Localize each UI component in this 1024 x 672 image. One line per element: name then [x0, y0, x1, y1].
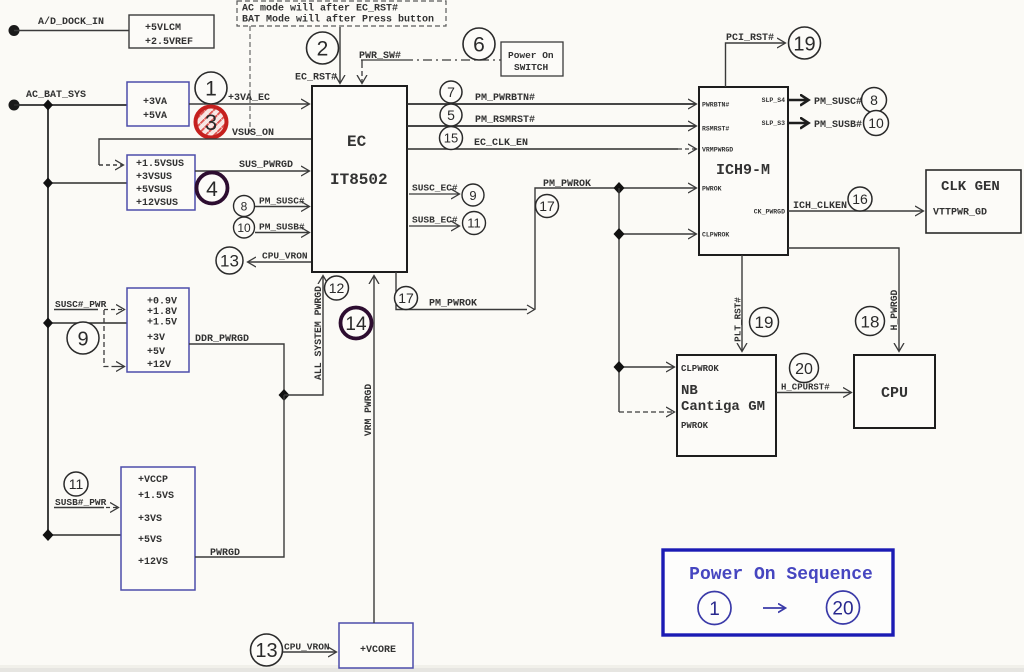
svg-text:18: 18 — [861, 313, 880, 332]
legend arrow — [763, 607, 785, 609]
regulator block +VSUS rails — [127, 155, 195, 210]
svg-text:CLK GEN: CLK GEN — [941, 179, 1000, 195]
svg-text:20: 20 — [795, 361, 813, 378]
svg-text:ICH9-M: ICH9-M — [716, 162, 770, 179]
CPU block — [854, 355, 935, 428]
badge 12 — [325, 276, 349, 300]
svg-text:+5V: +5V — [147, 347, 165, 358]
wire DDR_PWRGD — [189, 344, 284, 395]
svg-text:BAT Mode will after Press butt: BAT Mode will after Press button — [242, 14, 434, 26]
wire ALL SYSTEM PWRGD into EC — [284, 276, 323, 395]
svg-text:10: 10 — [237, 221, 251, 235]
svg-text:NB: NB — [681, 383, 698, 399]
svg-text:Power On Sequence: Power On Sequence — [689, 565, 873, 585]
svg-text:Cantiga GM: Cantiga GM — [681, 399, 765, 415]
wire ICH_CLKEN — [788, 210, 923, 212]
wire rail to VCCP box — [48, 534, 121, 536]
badge 9 (EC side) — [462, 184, 484, 206]
wire rail to +0.9V box — [48, 322, 127, 324]
svg-text:14: 14 — [345, 314, 367, 335]
svg-text:PM_SUSC#: PM_SUSC# — [814, 97, 862, 108]
svg-text:+1.5VSUS: +1.5VSUS — [136, 159, 184, 170]
junction CLPWROK — [614, 228, 625, 240]
node A/D_DOCK_IN dot — [9, 25, 20, 36]
legend badge 20 — [827, 591, 860, 624]
svg-text:+1.8V: +1.8V — [147, 307, 177, 318]
svg-text:11: 11 — [467, 216, 481, 231]
wire SUSC#_PWR into +0.9V box — [54, 309, 98, 311]
svg-text:17: 17 — [398, 290, 414, 306]
svg-text:EC_RST#: EC_RST# — [295, 73, 337, 84]
svg-text:19: 19 — [755, 313, 774, 332]
wire PCI_RST# — [726, 43, 786, 87]
svg-text:VRMPWRGD: VRMPWRGD — [702, 147, 733, 154]
svg-text:EC_CLK_EN: EC_CLK_EN — [474, 138, 528, 149]
badge 2 — [307, 32, 339, 64]
svg-text:PM_SUSC#: PM_SUSC# — [259, 196, 305, 207]
svg-text:CLPWROK: CLPWROK — [702, 232, 729, 239]
svg-text:10: 10 — [868, 115, 884, 131]
EC block IT8502 — [312, 86, 407, 272]
svg-text:H_CPURST#: H_CPURST# — [781, 383, 830, 393]
svg-text:+0.9V: +0.9V — [147, 297, 177, 308]
svg-text:+3VA: +3VA — [143, 97, 167, 108]
svg-text:+5VS: +5VS — [138, 535, 162, 546]
svg-text:+12V: +12V — [147, 360, 171, 371]
wire CPU_VRON out of EC — [248, 261, 311, 263]
wire PLT_RST# to NB — [741, 255, 743, 351]
svg-text:CLPWROK: CLPWROK — [681, 364, 719, 374]
junction rail at +0.9V — [43, 318, 53, 329]
svg-text:+1.5VS: +1.5VS — [138, 491, 174, 502]
svg-text:PWROK: PWROK — [702, 186, 722, 193]
svg-text:2: 2 — [317, 38, 329, 61]
svg-text:PWROK: PWROK — [681, 421, 709, 431]
svg-text:PM_SUSB#: PM_SUSB# — [814, 120, 862, 131]
wire PWR_SW# (dash-dot) — [361, 59, 404, 61]
badge 11 (EC side) — [463, 212, 486, 235]
wire AC_BAT_SYS horizontal — [14, 104, 127, 106]
svg-text:PM_RSMRST#: PM_RSMRST# — [475, 115, 535, 126]
badge 17 (ICH side) — [536, 195, 559, 218]
badge 10 (ICH side) — [864, 111, 889, 136]
svg-text:PWRGD: PWRGD — [210, 548, 240, 559]
svg-text:+3VA_EC: +3VA_EC — [228, 93, 270, 104]
junction rail top — [43, 100, 53, 111]
svg-text:+2.5VREF: +2.5VREF — [145, 37, 193, 48]
svg-text:13: 13 — [255, 640, 277, 662]
svg-text:8: 8 — [241, 200, 248, 214]
svg-text:+5VA: +5VA — [143, 111, 167, 122]
badge 13 (VCORE side) — [251, 634, 283, 666]
svg-text:PM_PWROK: PM_PWROK — [429, 299, 477, 310]
svg-text:+3VS: +3VS — [138, 514, 162, 525]
wire SUSB_EC# — [409, 225, 459, 227]
junction NB CLPWROK — [614, 361, 625, 373]
junction ALL SYSTEM PWRGD — [279, 389, 290, 401]
wire CLPWROK rail down — [618, 188, 620, 412]
svg-text:H_PWRGD: H_PWRGD — [889, 289, 900, 330]
badge 8 — [234, 196, 255, 217]
svg-text:VRM PWRGD: VRM PWRGD — [363, 384, 374, 437]
ICH9-M block — [699, 87, 788, 255]
svg-text:VSUS_ON: VSUS_ON — [232, 128, 274, 139]
badge 1 — [195, 72, 227, 104]
svg-text:+12VS: +12VS — [138, 557, 168, 568]
svg-text:A/D_DOCK_IN: A/D_DOCK_IN — [38, 16, 104, 28]
svg-text:PWR_SW#: PWR_SW# — [359, 51, 401, 62]
svg-text:+5VSUS: +5VSUS — [136, 185, 172, 196]
wire VRM_PWRGD — [373, 276, 375, 623]
svg-text:7: 7 — [447, 84, 455, 100]
badge 16 — [848, 187, 872, 211]
badge 19 (NB side) — [750, 308, 779, 337]
svg-text:AC_BAT_SYS: AC_BAT_SYS — [26, 90, 86, 101]
junction PM_PWROK / CLPWROK rail — [614, 182, 625, 194]
badge 14 (purple) — [341, 308, 372, 339]
svg-text:1: 1 — [709, 599, 720, 620]
wire SUS_PWRGD — [195, 170, 309, 172]
svg-text:12: 12 — [329, 280, 345, 296]
svg-text:ALL SYSTEM PWRGD: ALL SYSTEM PWRGD — [313, 286, 324, 380]
junction rail at VSUS — [43, 178, 53, 189]
bottom footer band — [0, 665, 1024, 668]
svg-text:20: 20 — [832, 599, 853, 620]
wire H_PWRGD to CPU — [788, 248, 899, 351]
note leader dashed wire — [249, 26, 251, 133]
svg-text:AC mode will after EC_RST#: AC mode will after EC_RST# — [242, 3, 398, 15]
svg-text:PLT_RST#: PLT_RST# — [733, 297, 744, 342]
svg-text:+1.5V: +1.5V — [147, 318, 177, 329]
badge 10 — [234, 217, 255, 238]
svg-text:16: 16 — [852, 191, 868, 207]
badge 18 — [856, 307, 885, 336]
wire A/D_DOCK_IN — [14, 30, 129, 32]
svg-text:Power On: Power On — [508, 50, 554, 61]
badge 9 (rail side) — [67, 322, 99, 354]
svg-text:PM_PWROK: PM_PWROK — [543, 179, 591, 190]
badge 7 — [440, 81, 462, 103]
svg-text:9: 9 — [77, 329, 88, 351]
svg-text:+5VLCM: +5VLCM — [145, 23, 181, 34]
wire SLP_S3 / PM_SUSB# — [788, 122, 808, 125]
badge 17 (EC side) — [395, 287, 418, 310]
badge 13 (EC side) — [216, 247, 243, 274]
regulator block +0.9V..+12V — [127, 288, 189, 372]
node AC_BAT_SYS dot — [9, 100, 20, 111]
wire CLPWROK into ICH — [619, 233, 696, 235]
svg-text:4: 4 — [206, 178, 218, 201]
wire PM_PWRBTN# — [407, 103, 696, 105]
wire VSUS_ON — [99, 139, 311, 165]
svg-text:17: 17 — [539, 198, 555, 214]
NB block Cantiga GM — [677, 355, 776, 456]
svg-text:11: 11 — [69, 476, 84, 492]
svg-text:9: 9 — [469, 188, 476, 203]
legend badge 1 — [698, 592, 731, 625]
svg-text:IT8502: IT8502 — [330, 171, 388, 189]
regulator block +5VLCM/+2.5VREF — [129, 15, 214, 48]
note box: AC/BAT mode — [237, 1, 446, 26]
svg-text:+VCORE: +VCORE — [360, 645, 396, 656]
wire SLP_S4 / PM_SUSC# — [788, 99, 808, 102]
svg-text:CPU_VRON: CPU_VRON — [284, 642, 330, 653]
svg-text:SUS_PWRGD: SUS_PWRGD — [239, 160, 293, 171]
badge 5 — [440, 104, 462, 126]
svg-text:RSMRST#: RSMRST# — [702, 126, 729, 133]
svg-text:3: 3 — [205, 110, 217, 135]
wire EC_RST# — [339, 27, 341, 83]
svg-text:+3VSUS: +3VSUS — [136, 172, 172, 183]
svg-text:PM_PWRBTN#: PM_PWRBTN# — [475, 93, 535, 104]
svg-text:+12VSUS: +12VSUS — [136, 198, 178, 209]
wire +3VA_EC — [189, 103, 309, 105]
wire SUSC#_PWR dashed branch — [104, 310, 114, 367]
svg-text:+VCCP: +VCCP — [138, 475, 168, 486]
wire PM_PWROK from EC — [396, 272, 527, 310]
regulator block +VCCP..+12VS — [121, 467, 195, 590]
svg-text:CK_PWRGD: CK_PWRGD — [754, 209, 785, 216]
badge 19 (top) — [789, 27, 821, 59]
wire PM_SUSC# into EC — [255, 206, 309, 208]
wire PWRGD from VCCP — [195, 395, 284, 557]
svg-text:DDR_PWRGD: DDR_PWRGD — [195, 334, 249, 345]
wire CPU_VRON into VCORE — [283, 651, 336, 653]
legend box Power On Sequence — [663, 550, 893, 635]
wire PWROK into NB (dashed) — [619, 411, 674, 413]
svg-text:CPU: CPU — [881, 385, 908, 402]
wire PM_SUSB# into EC — [255, 232, 309, 234]
badge 4 (purple) — [197, 173, 228, 204]
svg-text:CPU_VRON: CPU_VRON — [262, 251, 308, 262]
svg-text:5: 5 — [447, 107, 455, 123]
svg-text:EC: EC — [347, 133, 367, 151]
badge 8 (ICH side) — [862, 88, 887, 113]
svg-text:VTTPWR_GD: VTTPWR_GD — [933, 208, 987, 219]
svg-text:SLP_S4: SLP_S4 — [762, 97, 786, 104]
wire rail to VSUS box — [48, 182, 127, 184]
svg-text:SUSB#_PWR: SUSB#_PWR — [55, 497, 107, 508]
Power On SWITCH block — [501, 42, 563, 76]
CLK GEN block — [926, 170, 1021, 233]
svg-text:13: 13 — [220, 252, 239, 271]
svg-text:6: 6 — [473, 34, 485, 57]
badge 15 — [440, 127, 463, 150]
badge 20 (NB side) — [790, 354, 819, 383]
svg-text:SUSC#_PWR: SUSC#_PWR — [55, 299, 107, 310]
svg-text:15: 15 — [444, 131, 458, 146]
svg-text:SLP_S3: SLP_S3 — [762, 120, 786, 127]
svg-text:+3V: +3V — [147, 333, 165, 344]
svg-text:ICH_CLKEN: ICH_CLKEN — [793, 201, 847, 212]
wire CLPWROK into NB — [619, 366, 674, 368]
wire EC_CLK_EN (dashed arrow) — [407, 148, 678, 150]
wire H_CPURST# — [776, 392, 851, 394]
svg-text:1: 1 — [205, 78, 217, 101]
wire AC_BAT_SYS vertical rail — [47, 105, 49, 535]
badge 6 — [463, 28, 495, 60]
svg-text:SWITCH: SWITCH — [514, 62, 549, 73]
wire SUSC_EC# — [409, 193, 459, 195]
badge 3 (red hatched) — [196, 107, 227, 138]
wire SUSB#_PWR into VCCP box — [54, 507, 104, 509]
wire PM_RSMRST# — [407, 125, 696, 127]
junction rail at VCCP — [43, 529, 54, 541]
badge 11 (rail side) — [64, 472, 88, 496]
svg-text:SUSC_EC#: SUSC_EC# — [412, 183, 458, 194]
svg-text:PCI_RST#: PCI_RST# — [726, 33, 774, 44]
svg-text:SUSB_EC#: SUSB_EC# — [412, 215, 458, 226]
svg-text:PWRBTN#: PWRBTN# — [702, 102, 729, 109]
svg-text:8: 8 — [870, 92, 878, 108]
svg-text:19: 19 — [793, 34, 815, 56]
svg-text:PM_SUSB#: PM_SUSB# — [259, 222, 305, 233]
regulator block +3VA/+5VA — [127, 82, 189, 126]
regulator block +VCORE — [339, 623, 413, 668]
